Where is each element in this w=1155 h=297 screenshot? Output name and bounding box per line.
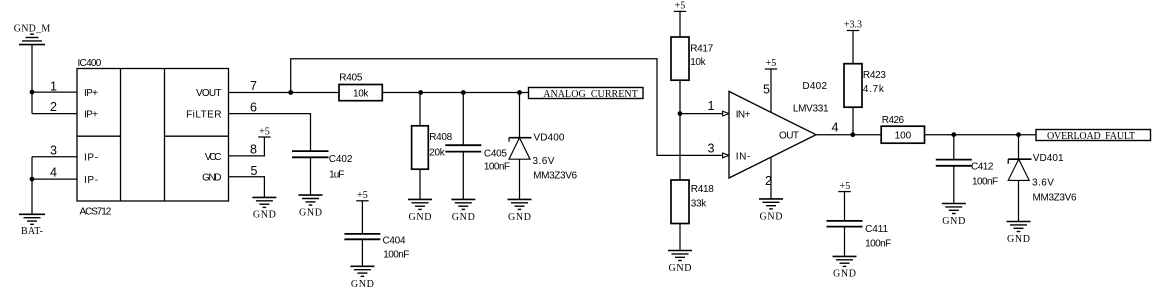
svg-text:+5: +5	[766, 58, 777, 69]
junction OUT node	[850, 132, 855, 137]
svg-text:1: 1	[708, 99, 715, 113]
input arrow IN-	[723, 153, 729, 158]
svg-text:ACS712: ACS712	[80, 206, 112, 217]
svg-text:LMV331: LMV331	[793, 104, 829, 115]
resistor R408	[412, 126, 453, 169]
ground at C402	[299, 195, 323, 218]
svg-text:100nF: 100nF	[383, 250, 409, 261]
wire pin 2 V- to ground	[770, 157, 772, 199]
svg-text:GND: GND	[299, 207, 322, 218]
ground at VD400	[508, 199, 532, 223]
input arrow IN+	[723, 111, 729, 116]
wire C411 to ground	[844, 227, 846, 257]
svg-text:VCC: VCC	[205, 152, 222, 163]
wire pin 5 GND	[229, 177, 265, 198]
svg-text:100nF: 100nF	[865, 238, 891, 249]
ground at VD401	[1007, 222, 1031, 246]
IC IC400 divider right	[164, 69, 166, 202]
svg-text:BAT-: BAT-	[21, 226, 43, 237]
svg-text:GND: GND	[409, 212, 432, 223]
svg-text:2: 2	[50, 100, 57, 114]
svg-text:R417: R417	[690, 43, 713, 54]
zener diode VD400	[509, 133, 578, 182]
wire pin 4	[32, 178, 77, 180]
svg-text:R405: R405	[339, 72, 363, 83]
wire VD401 to ground	[1018, 180, 1020, 221]
svg-text:GND_M: GND_M	[14, 23, 51, 34]
svg-text:100nF: 100nF	[972, 176, 998, 187]
junction at pin1	[30, 90, 35, 95]
junction C412	[951, 132, 956, 137]
wire to VD401	[1018, 135, 1020, 160]
wire divider node to IN+	[680, 113, 723, 115]
wire pin 5 V+ to +5	[770, 69, 772, 112]
junction divider node	[678, 111, 683, 116]
svg-text:5: 5	[763, 82, 770, 96]
wire R417 to divider node	[679, 80, 681, 113]
resistor R417	[671, 37, 714, 80]
wire +5 to R417	[679, 11, 681, 37]
svg-text:GND: GND	[942, 216, 965, 227]
svg-text:5: 5	[251, 164, 258, 178]
wire R408 to ground	[419, 169, 421, 199]
svg-text:2: 2	[765, 174, 772, 188]
svg-text:R423: R423	[863, 70, 886, 81]
capacitor C412	[936, 160, 998, 188]
svg-text:VOUT: VOUT	[196, 88, 222, 99]
svg-text:C402: C402	[329, 154, 353, 165]
wire C404 to ground	[361, 239, 363, 266]
ground at R408	[408, 199, 432, 223]
net label OVERLOAD FAULT	[1036, 130, 1151, 143]
svg-text:OUT: OUT	[779, 131, 799, 142]
svg-text:GND: GND	[1007, 234, 1030, 245]
IC IC400 divider horizontal left column	[77, 135, 121, 137]
svg-text:VD401: VD401	[1033, 153, 1064, 164]
svg-text:+5: +5	[259, 126, 270, 137]
ground at C412	[942, 204, 966, 228]
zener diode VD401	[1008, 153, 1077, 204]
comparator D402 triangle	[729, 91, 816, 178]
svg-text:IP+: IP+	[84, 110, 98, 121]
junction VD400	[517, 90, 522, 95]
svg-text:4.7k: 4.7k	[863, 84, 885, 95]
svg-text:ANALOG CURRENT: ANALOG CURRENT	[543, 89, 638, 100]
svg-text:OVERLOAD FAULT: OVERLOAD FAULT	[1047, 131, 1135, 142]
capacitor C404	[344, 234, 409, 261]
wire GND_M stem to pin1/pin2	[31, 45, 33, 114]
wire VD400 to ground	[519, 159, 521, 199]
wire OUT node to R423	[852, 107, 854, 135]
svg-text:3.6V: 3.6V	[1032, 177, 1054, 188]
wire to C405	[462, 93, 464, 146]
wire divider node to R418	[679, 114, 681, 180]
svg-text:IP+: IP+	[84, 88, 98, 99]
svg-text:4: 4	[832, 121, 839, 135]
svg-text:6: 6	[250, 101, 257, 115]
svg-text:+5: +5	[675, 1, 686, 12]
ground at pin 5	[252, 197, 276, 220]
wire OUT to R426	[816, 134, 881, 136]
svg-text:3: 3	[50, 143, 57, 157]
svg-text:MM3Z3V6: MM3Z3V6	[1033, 193, 1077, 204]
wire pin 8 VCC to +5	[229, 137, 265, 156]
capacitor C405	[445, 145, 510, 172]
ground at C404	[350, 266, 374, 290]
IC IC400 outline	[77, 69, 229, 202]
svg-text:GND: GND	[508, 212, 531, 223]
ground at C405	[451, 199, 475, 223]
svg-text:+3.3: +3.3	[844, 20, 862, 31]
svg-text:C404: C404	[383, 236, 406, 247]
wire R426 to OVERLOAD FAULT	[925, 134, 1037, 136]
svg-text:1uF: 1uF	[329, 169, 344, 180]
svg-text:GND: GND	[669, 263, 692, 274]
junction VOUT node	[288, 90, 293, 95]
svg-text:C411: C411	[865, 224, 888, 235]
svg-text:1: 1	[50, 79, 57, 93]
wire C405 to ground	[462, 152, 464, 200]
svg-text:+5: +5	[840, 181, 851, 192]
svg-text:GND: GND	[760, 211, 783, 222]
svg-text:D402: D402	[802, 81, 827, 92]
wire to VD400	[519, 93, 521, 138]
capacitor C402	[292, 151, 353, 180]
resistor R426	[881, 115, 924, 143]
ground at R418	[668, 251, 692, 275]
svg-text:GND: GND	[351, 279, 374, 290]
wire to C412	[953, 135, 955, 160]
svg-text:33k: 33k	[691, 199, 708, 210]
resistor R423	[844, 64, 886, 107]
junction at pin4	[30, 177, 35, 182]
ground BAT-	[19, 214, 45, 237]
power flag +5 at comparator	[765, 58, 777, 69]
junction VD401	[1016, 132, 1021, 137]
svg-text:10k: 10k	[353, 89, 369, 100]
wire C412 to ground	[953, 166, 955, 204]
svg-text:100: 100	[895, 131, 912, 142]
svg-text:100nF: 100nF	[484, 162, 510, 173]
wire pin 3	[32, 156, 77, 158]
IC IC400 divider horizontal right column	[165, 135, 229, 137]
svg-text:IP-: IP-	[84, 175, 98, 186]
wire +5 to C404	[361, 201, 363, 234]
svg-text:GND: GND	[452, 212, 475, 223]
wire R405 to analog node	[382, 92, 528, 94]
svg-text:R426: R426	[882, 115, 905, 126]
svg-text:R418: R418	[691, 184, 714, 195]
svg-text:10k: 10k	[690, 57, 706, 68]
wire R418 to ground	[679, 224, 681, 251]
svg-text:3.6V: 3.6V	[533, 156, 555, 167]
svg-text:VD400: VD400	[534, 133, 565, 144]
svg-text:IN+: IN+	[736, 110, 751, 121]
svg-text:IN-: IN-	[736, 151, 751, 162]
wire pin 1	[32, 91, 77, 93]
wire C402 to ground	[310, 157, 312, 195]
svg-text:FiLTER: FiLTER	[186, 110, 221, 121]
net label ANALOG CURRENT	[529, 88, 644, 101]
svg-text:4: 4	[50, 165, 57, 179]
IC IC400 divider left	[120, 69, 122, 202]
wire R423 to +3.3	[852, 31, 854, 64]
svg-text:IP-: IP-	[84, 153, 98, 164]
svg-text:20k: 20k	[429, 147, 446, 158]
power flag +5 at C404	[356, 190, 368, 201]
junction C405	[461, 90, 466, 95]
power flag +5 at pin 8	[258, 126, 270, 137]
svg-text:8: 8	[250, 143, 257, 157]
svg-text:C405: C405	[484, 149, 507, 160]
svg-text:GND: GND	[253, 209, 276, 220]
wire pin 7 VOUT	[229, 92, 340, 94]
resistor R418	[671, 180, 714, 224]
junction R408	[418, 90, 423, 95]
power flag +5 at R417	[674, 1, 686, 12]
wire pin3/pin4 to BAT-	[31, 157, 33, 215]
svg-text:IC400: IC400	[78, 58, 102, 69]
svg-text:R408: R408	[429, 132, 452, 143]
wire pin 2	[32, 113, 77, 115]
power flag GND_M	[14, 23, 51, 44]
svg-text:GND: GND	[202, 173, 221, 184]
capacitor C411	[827, 221, 892, 249]
svg-text:3: 3	[708, 141, 715, 155]
svg-text:7: 7	[250, 79, 257, 93]
svg-text:MM3Z3V6: MM3Z3V6	[533, 171, 577, 182]
power flag +5 at C411	[838, 181, 850, 192]
power flag +3.3	[844, 20, 862, 31]
svg-text:C412: C412	[971, 162, 994, 173]
wire pin 6 FILTER to C402	[229, 114, 311, 152]
wire to R408	[419, 93, 421, 126]
resistor R405	[339, 72, 382, 100]
wire feedback route up	[291, 59, 723, 156]
svg-text:+5: +5	[357, 190, 368, 201]
ground at comparator	[759, 199, 783, 223]
ground at C411	[833, 256, 857, 279]
wire +5 to C411	[844, 192, 846, 221]
svg-text:GND: GND	[833, 268, 856, 279]
